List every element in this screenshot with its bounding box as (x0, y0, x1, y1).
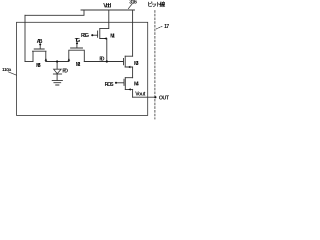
svg-text:FD: FD (99, 56, 104, 62)
svg-text:M3: M3 (134, 61, 139, 67)
svg-text:ROS: ROS (105, 82, 115, 88)
svg-text:17: 17 (164, 24, 169, 30)
svg-text:M1: M1 (110, 33, 115, 39)
svg-text:OUT: OUT (159, 95, 170, 101)
svg-text:M5: M5 (36, 63, 41, 69)
svg-text:M4: M4 (134, 82, 139, 88)
svg-text:Vout: Vout (135, 91, 145, 97)
svg-text:316: 316 (129, 0, 137, 5)
svg-text:M2: M2 (76, 62, 81, 68)
svg-text:Vdd: Vdd (103, 4, 111, 10)
svg-text:RSG: RSG (81, 33, 89, 39)
svg-text:PD: PD (62, 69, 68, 75)
svg-text:AB: AB (37, 39, 43, 45)
svg-text:ビット線: ビット線 (147, 0, 165, 8)
svg-text:TG: TG (75, 38, 80, 44)
svg-text:110a: 110a (2, 67, 12, 73)
